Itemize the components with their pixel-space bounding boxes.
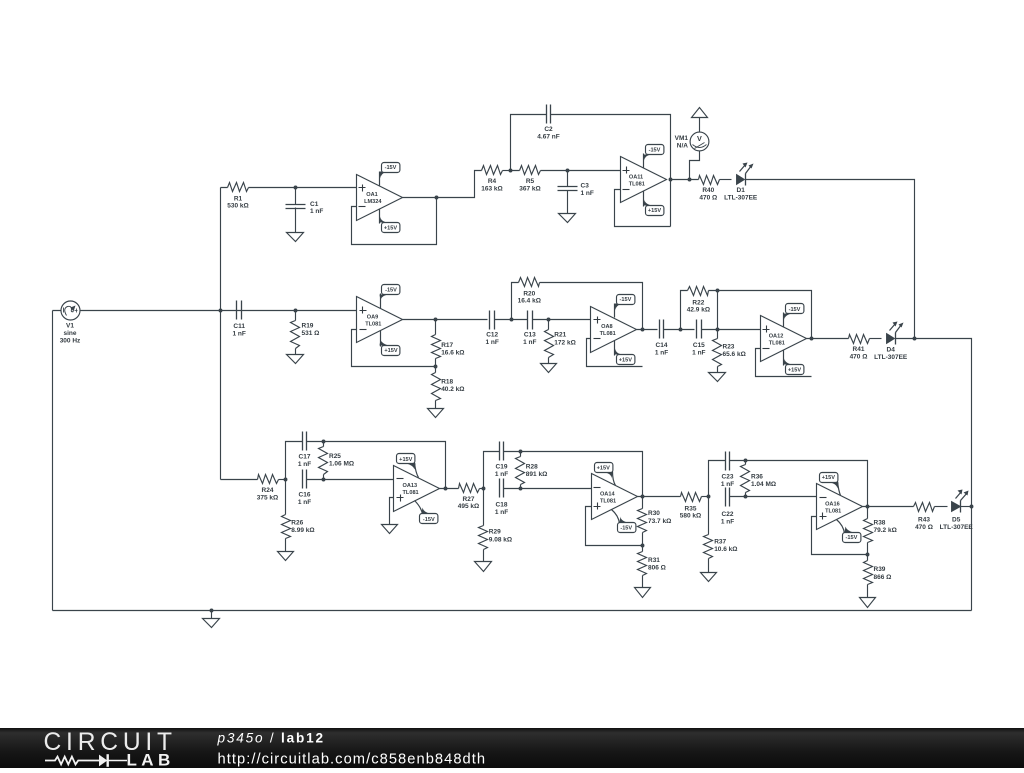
svg-text:172 kΩ: 172 kΩ	[554, 339, 575, 346]
svg-text:C17: C17	[299, 454, 311, 461]
svg-text:C1: C1	[310, 201, 319, 208]
svg-text:OA16: OA16	[825, 501, 840, 507]
svg-text:R43: R43	[918, 516, 930, 523]
wire C23 top branch	[709, 461, 868, 507]
node stage1 input (R24/C16/C17/R26)	[284, 478, 288, 482]
svg-text:-15V: -15V	[649, 148, 661, 154]
CircuitLab logo diode	[99, 755, 107, 767]
wire OA9 output to C12	[403, 319, 488, 321]
svg-text:580 kΩ: 580 kΩ	[680, 513, 701, 520]
svg-text:R40: R40	[702, 187, 714, 194]
voltage source V1	[53, 310, 357, 312]
svg-text:R24: R24	[262, 487, 274, 494]
svg-text:R39: R39	[874, 566, 886, 573]
resistor R40	[699, 176, 720, 185]
svg-text:C22: C22	[722, 511, 734, 518]
node bottom rail ground tap	[210, 609, 214, 613]
ground (R18)	[428, 409, 444, 418]
svg-text:R18: R18	[441, 378, 453, 385]
svg-text:TL081: TL081	[629, 181, 645, 187]
voltmeter VM1	[690, 132, 709, 151]
ground (R39)	[860, 598, 876, 608]
svg-text:R41: R41	[853, 346, 865, 353]
svg-text:+15V: +15V	[597, 465, 610, 471]
resistor R27	[459, 484, 480, 493]
op-amp OA12 feedback loop wire	[756, 349, 812, 377]
svg-text:N/A: N/A	[677, 143, 689, 150]
LED D5	[952, 502, 961, 512]
svg-text:1 nF: 1 nF	[310, 208, 323, 215]
svg-text:C23: C23	[722, 474, 734, 481]
resistor R36	[745, 461, 747, 497]
node C17/R25	[322, 440, 326, 444]
svg-text:OA1: OA1	[366, 192, 378, 198]
wire OA12 output to R41	[807, 338, 849, 340]
node C23/R36	[744, 459, 748, 463]
svg-text:-15V: -15V	[385, 165, 397, 171]
ground (R26)	[278, 552, 294, 561]
svg-text:TL081: TL081	[825, 508, 841, 514]
node R38/R39 divider	[866, 553, 870, 557]
svg-text:40.2 kΩ: 40.2 kΩ	[441, 386, 464, 393]
wire R1 to OA1 + input	[296, 187, 357, 189]
capacitor C18	[500, 479, 504, 498]
svg-text:VM1: VM1	[675, 135, 689, 142]
capacitor C2	[547, 105, 551, 124]
svg-text:1 nF: 1 nF	[298, 461, 311, 468]
op-amp OA12	[761, 316, 807, 362]
svg-text:1 nF: 1 nF	[655, 349, 668, 356]
op-amp OA13 + input ground wire	[390, 498, 394, 525]
wire V1 left to bottom rail	[52, 311, 54, 611]
svg-text:OA11: OA11	[629, 174, 643, 180]
svg-text:16.6 kΩ: 16.6 kΩ	[441, 350, 464, 357]
svg-text:367 kΩ: 367 kΩ	[519, 185, 540, 192]
node R17/R18 feedback divider	[434, 365, 438, 369]
capacitor C14	[660, 320, 664, 339]
resistor R39	[867, 555, 869, 598]
svg-text:4.67 nF: 4.67 nF	[537, 133, 559, 140]
capacitor C17	[303, 432, 307, 451]
capacitor C16	[303, 470, 307, 489]
svg-text:D1: D1	[737, 187, 746, 194]
wire R5/C3 node to OA11 + input	[568, 170, 621, 172]
op-amp OA9	[357, 297, 403, 343]
wire C2 branch up and over to OA11 output	[511, 115, 671, 227]
op-amp OA11 feedback loop wire	[615, 190, 671, 227]
ground (R21)	[541, 364, 557, 373]
svg-text:LM324: LM324	[364, 199, 382, 205]
node C15/R23	[716, 328, 720, 332]
svg-text:1 nF: 1 nF	[721, 481, 734, 488]
node OA1 output	[435, 196, 439, 200]
node OA14 output	[641, 495, 645, 499]
svg-text:+15V: +15V	[384, 348, 397, 354]
capacitor C12	[490, 311, 495, 330]
resistor R26	[285, 480, 287, 552]
node R30/R31 divider	[641, 544, 645, 548]
svg-text:73.7 kΩ: 73.7 kΩ	[648, 518, 671, 525]
wire C17 top branch	[286, 442, 446, 489]
svg-text:1 nF: 1 nF	[495, 471, 508, 478]
svg-text:79.2 kΩ: 79.2 kΩ	[874, 527, 897, 534]
node C19/R28	[519, 450, 523, 454]
resistor R20 feedback wire	[512, 283, 643, 329]
resistor R24	[258, 475, 279, 484]
svg-text:10.6 kΩ: 10.6 kΩ	[714, 546, 737, 553]
wire D4 to right rail down to row 3	[896, 339, 972, 611]
svg-text:http://circuitlab.com/c858enb8: http://circuitlab.com/c858enb848dth	[218, 751, 487, 767]
wire OA13 output to R27	[440, 488, 459, 490]
ground (R37)	[701, 573, 717, 582]
wire input rail to R24	[221, 479, 258, 481]
node input rail (R1/V1/R24 left vertical)	[220, 188, 222, 480]
resistor R38	[867, 507, 869, 555]
op-amp OA8 feedback loop wire	[587, 339, 643, 367]
node OA12 output	[810, 337, 814, 341]
svg-text:470 Ω: 470 Ω	[699, 194, 717, 201]
svg-text:866 Ω: 866 Ω	[874, 574, 892, 581]
svg-text:OA12: OA12	[769, 334, 784, 340]
svg-text:R35: R35	[685, 505, 697, 512]
wire C13 to OA8 + input	[533, 319, 591, 321]
voltmeter VM1 branch wire	[690, 151, 700, 180]
resistor R20	[519, 278, 540, 287]
svg-text:LTL-307EE: LTL-307EE	[940, 524, 974, 531]
node C12/C13/R20	[510, 318, 514, 322]
op-amp OA9 feedback loop wire	[352, 330, 436, 367]
svg-text:1 nF: 1 nF	[581, 190, 594, 197]
svg-text:R38: R38	[874, 519, 886, 526]
capacitor C3	[567, 171, 569, 214]
op-amp OA13	[394, 466, 440, 512]
resistor R35	[681, 493, 702, 502]
node C13/R21	[547, 318, 551, 322]
node OA16 output	[866, 505, 870, 509]
wire C15 to OA12 + input	[702, 329, 761, 331]
svg-text:C15: C15	[693, 342, 705, 349]
node R25/main wire	[322, 478, 326, 482]
op-amp OA16	[817, 484, 863, 530]
svg-text:C3: C3	[581, 183, 590, 190]
svg-text:+15V: +15V	[619, 358, 632, 364]
svg-text:R36: R36	[751, 474, 763, 481]
svg-text:8.99 kΩ: 8.99 kΩ	[291, 527, 314, 534]
wire C14 to C15	[664, 329, 695, 331]
svg-text:OA8: OA8	[601, 324, 613, 330]
capacitor C15	[697, 320, 702, 339]
ground (bottom rail)	[211, 611, 213, 619]
resistor R19	[295, 311, 297, 355]
resistor R22	[688, 287, 709, 296]
svg-text:OA13: OA13	[402, 483, 417, 489]
svg-text:163 kΩ: 163 kΩ	[481, 185, 502, 192]
svg-text:R26: R26	[291, 519, 303, 526]
svg-text:LTL-307EE: LTL-307EE	[724, 194, 758, 201]
svg-text:1 nF: 1 nF	[486, 339, 499, 346]
resistor R43	[914, 503, 935, 512]
node R5/C3	[566, 169, 570, 173]
wire OA8 output to C14	[637, 329, 658, 331]
node stage2 input (R27/C18/C19/R29)	[482, 487, 486, 491]
ground (C1)	[287, 233, 304, 242]
ground (R19)	[287, 355, 304, 364]
svg-text:1.04 MΩ: 1.04 MΩ	[751, 481, 776, 488]
resistor R21	[548, 320, 550, 364]
svg-text:-15V: -15V	[845, 535, 857, 541]
node D5 output / right rail	[970, 505, 974, 509]
junction at V1 wire and input rail	[219, 309, 223, 313]
node R1/C1	[294, 186, 298, 190]
node C14/C15/R22	[679, 328, 683, 332]
svg-text:65.6 kΩ: 65.6 kΩ	[723, 351, 746, 358]
svg-text:1 nF: 1 nF	[233, 330, 246, 337]
svg-text:-15V: -15V	[423, 517, 435, 523]
svg-text:R30: R30	[648, 510, 660, 517]
capacitor C19	[500, 442, 504, 461]
wire OA11 output to R40	[671, 179, 699, 181]
resistor R28	[520, 452, 522, 489]
svg-text:+15V: +15V	[648, 208, 661, 214]
wire C12 to C13	[495, 319, 528, 321]
node OA11 output	[669, 178, 673, 182]
op-amp OA1 feedback loop wire	[352, 198, 437, 245]
svg-text:R27: R27	[463, 496, 475, 503]
op-amp OA8	[591, 307, 637, 353]
svg-text:D5: D5	[952, 516, 961, 523]
capacitor C11	[237, 301, 242, 320]
svg-text:1 nF: 1 nF	[721, 519, 734, 526]
svg-text:sine: sine	[63, 330, 76, 337]
svg-text:C11: C11	[233, 323, 245, 330]
svg-text:1 nF: 1 nF	[692, 349, 705, 356]
svg-text:p345o / lab12: p345o / lab12	[217, 731, 325, 746]
capacitor C23	[726, 452, 730, 471]
svg-text:891 kΩ: 891 kΩ	[526, 471, 547, 478]
op-amp OA14	[592, 474, 638, 520]
CircuitLab logo resistor squiggle	[45, 757, 99, 765]
svg-text:531 Ω: 531 Ω	[302, 330, 320, 337]
svg-text:1 nF: 1 nF	[523, 339, 536, 346]
svg-text:OA14: OA14	[600, 492, 616, 498]
svg-text:R31: R31	[648, 557, 660, 564]
svg-text:R5: R5	[526, 178, 535, 185]
wire D1 to right rail down to row 2	[746, 180, 915, 339]
resistor R41	[849, 335, 870, 344]
svg-text:-15V: -15V	[385, 288, 397, 294]
svg-text:16.4 kΩ: 16.4 kΩ	[518, 298, 541, 305]
svg-text:C18: C18	[496, 502, 508, 509]
svg-text:+15V: +15V	[822, 475, 835, 481]
svg-text:R21: R21	[554, 332, 566, 339]
resistor R31	[642, 546, 644, 588]
svg-text:C12: C12	[486, 332, 498, 339]
svg-text:470 Ω: 470 Ω	[850, 354, 868, 361]
LED D4	[887, 334, 895, 344]
svg-text:LTL-307EE: LTL-307EE	[874, 354, 908, 361]
svg-text:R20: R20	[523, 290, 535, 297]
resistor R23	[717, 330, 719, 373]
svg-text:R22: R22	[692, 299, 704, 306]
node stage3 input (R35/C22/C23/R37)	[707, 495, 711, 499]
svg-text:R23: R23	[723, 343, 735, 350]
wire OA1 output to R4	[403, 171, 482, 198]
node R22 right	[716, 289, 720, 293]
wire OA14 output to R35	[638, 496, 681, 498]
svg-text:C16: C16	[299, 492, 311, 499]
svg-text:375 kΩ: 375 kΩ	[257, 495, 278, 502]
node OA13 output	[444, 487, 448, 491]
svg-text:V1: V1	[66, 323, 74, 330]
svg-text:-15V: -15V	[620, 525, 632, 531]
power flag on VM1	[699, 118, 701, 133]
wire C18 to OA14 - input	[504, 488, 592, 490]
resistor R25	[323, 442, 325, 480]
svg-text:TL081: TL081	[600, 331, 616, 337]
svg-text:470 Ω: 470 Ω	[915, 524, 933, 531]
svg-text:1.06 MΩ: 1.06 MΩ	[329, 461, 354, 468]
capacitor C22	[726, 488, 730, 507]
svg-text:TL081: TL081	[403, 490, 419, 496]
node OA9 output	[434, 318, 438, 322]
wire OA16 output to R43	[863, 506, 914, 508]
op-amp OA14 + input feedback wire	[586, 507, 643, 546]
svg-text:+15V: +15V	[384, 226, 397, 232]
svg-text:C14: C14	[656, 342, 668, 349]
capacitor C13	[528, 311, 533, 330]
svg-text:TL081: TL081	[600, 499, 616, 505]
svg-text:R28: R28	[526, 463, 538, 470]
svg-text:V: V	[697, 134, 702, 143]
svg-text:TL081: TL081	[365, 321, 381, 327]
wire C19 top branch	[484, 452, 643, 497]
node VM1 branch	[688, 178, 692, 182]
node OA8 output	[641, 328, 645, 332]
op-amp OA1	[357, 175, 403, 221]
resistor R4	[482, 166, 503, 175]
svg-text:1 nF: 1 nF	[298, 499, 311, 506]
svg-text:R25: R25	[329, 453, 341, 460]
svg-text:D4: D4	[887, 347, 896, 354]
svg-text:530 kΩ: 530 kΩ	[227, 203, 248, 210]
resistor R5	[511, 170, 568, 172]
svg-text:42.9 kΩ: 42.9 kΩ	[687, 307, 710, 314]
node R28/main wire	[519, 487, 523, 491]
resistor R30	[642, 497, 644, 546]
svg-text:495 kΩ: 495 kΩ	[458, 503, 479, 510]
bottom ground rail wire	[53, 610, 972, 612]
svg-text:R19: R19	[302, 323, 314, 330]
resistor R37	[708, 497, 710, 573]
svg-text:+15V: +15V	[399, 457, 412, 463]
node D4 output / rail from row 1	[913, 337, 917, 341]
capacitor C1	[295, 188, 297, 233]
svg-text:C19: C19	[496, 463, 508, 470]
node C11/R19	[294, 309, 298, 313]
ground (C3)	[559, 214, 576, 223]
svg-text:-15V: -15V	[789, 307, 801, 313]
node R4/R5/C2	[509, 169, 513, 173]
ground (R23)	[709, 373, 726, 382]
resistor R29	[483, 489, 485, 562]
svg-text:9.08 kΩ: 9.08 kΩ	[489, 536, 512, 543]
svg-text:R1: R1	[234, 195, 243, 202]
svg-text:-15V: -15V	[619, 297, 631, 303]
LED D1	[737, 175, 745, 185]
svg-text:300 Hz: 300 Hz	[60, 338, 81, 345]
op-amp OA11	[621, 157, 667, 203]
resistor R18	[435, 367, 437, 409]
svg-text:R29: R29	[489, 529, 501, 536]
svg-text:R37: R37	[714, 538, 726, 545]
ground (R31)	[635, 588, 651, 598]
wire C22 to OA16 - input	[730, 496, 817, 498]
svg-text:+15V: +15V	[788, 367, 801, 373]
wire D5 to right rail	[961, 506, 972, 508]
ground (OA13 +)	[382, 525, 398, 534]
svg-text:R17: R17	[441, 342, 453, 349]
svg-text:LAB: LAB	[127, 750, 175, 768]
resistor R1	[221, 187, 296, 189]
svg-text:OA9: OA9	[367, 314, 379, 320]
ground (R29)	[475, 562, 492, 572]
svg-text:806 Ω: 806 Ω	[648, 565, 666, 572]
wire C16 to OA13 - input	[307, 479, 394, 481]
svg-text:1 nF: 1 nF	[495, 509, 508, 516]
node R36/main wire	[744, 495, 748, 499]
resistor R22 feedback wire	[681, 291, 812, 339]
svg-text:C2: C2	[544, 126, 553, 133]
svg-text:C13: C13	[524, 332, 536, 339]
svg-text:TL081: TL081	[769, 341, 785, 347]
op-amp OA16 + input feedback wire	[812, 517, 868, 555]
svg-text:R4: R4	[488, 178, 497, 185]
resistor R17	[432, 335, 441, 359]
